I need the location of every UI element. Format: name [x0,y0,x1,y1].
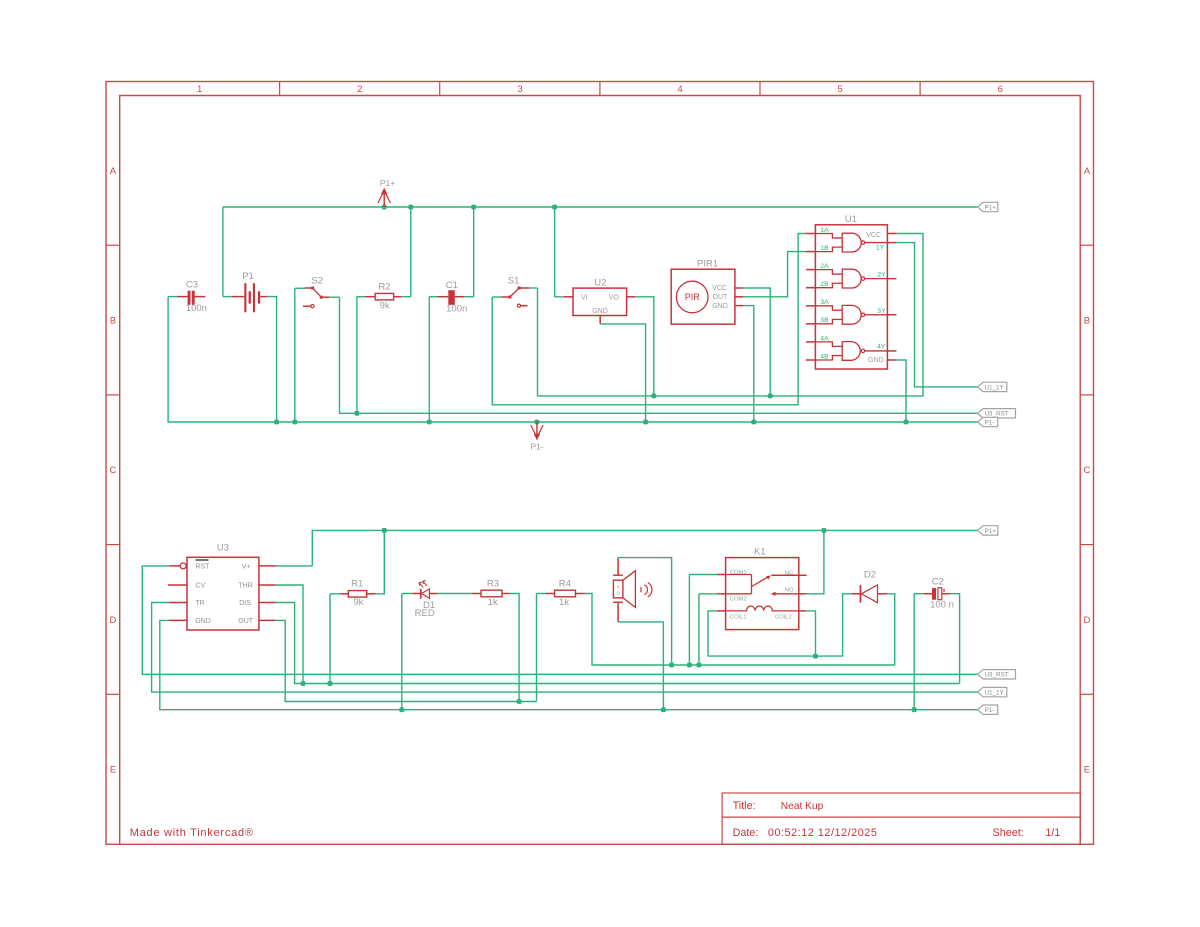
svg-text:NC: NC [785,570,793,576]
svg-text:NO: NO [785,588,794,594]
svg-text:2A: 2A [820,263,829,270]
svg-text:C3: C3 [186,280,198,291]
svg-text:R3: R3 [487,579,499,590]
svg-text:V+: V+ [242,563,251,570]
node U2 GND on P1- bus [643,420,648,425]
svg-text:S1: S1 [508,276,520,287]
svg-text:C: C [1083,465,1090,476]
wire S2 left contact wire [295,287,305,289]
wire U1 GND to P1- bus [896,360,906,422]
svg-text:1k: 1k [559,597,569,608]
svg-text:A: A [110,166,117,177]
sheet outer border frame [106,82,1094,845]
U1 right pin stubs [887,234,896,361]
svg-text:VI: VI [581,294,588,301]
wire D1 left lead wire [402,593,412,595]
wire U3 TR to U1_1Y line [152,603,978,693]
svg-text:DIS: DIS [239,600,251,607]
capacitor C2 100n [924,577,954,611]
diode D2 [852,570,888,603]
row tick marks left and right [106,245,1094,694]
wire S1 common wire [492,296,502,298]
NAND IC U1 [815,214,887,369]
svg-text:K1: K1 [754,546,766,557]
svg-text:P1-: P1- [985,419,995,426]
LED D1 RED [412,581,437,620]
node P1 right on P1- bus [274,420,279,425]
node U2 VO on VCC rail [651,394,656,399]
wire R4 right to common line [585,594,895,666]
svg-text:A: A [1084,166,1091,177]
svg-text:1Y: 1Y [876,245,885,252]
wire U3 OUT line [276,620,537,701]
net flag P1+ bottom [978,526,998,535]
net flag U3_RST bottom [978,670,1016,679]
node P1+ R2 junction [408,205,413,210]
wire K1 COM2 vertical [698,594,700,665]
wire speaker bottom to P1- line [618,622,663,710]
column numbers 1-6 [197,84,1003,95]
svg-text:4: 4 [677,84,682,95]
svg-text:P1-: P1- [530,442,543,452]
svg-text:P1-: P1- [985,707,995,714]
node COM1 on common line [687,663,692,668]
svg-text:OUT: OUT [713,294,729,301]
svg-text:U3: U3 [217,543,229,554]
wire P1+ to U2 VI [554,207,556,297]
svg-text:9k: 9k [380,300,390,311]
wire U3 DIS timing line [276,603,960,684]
wire U2 VI lead wire [555,296,564,298]
speaker LS1 [613,558,652,622]
svg-text:P1+: P1+ [985,528,997,535]
wire P1+ bus bottom [312,530,977,566]
wire S2 right to U3_RST line [340,297,978,413]
svg-text:RST: RST [195,563,210,570]
svg-text:Date:: Date: [733,827,759,839]
wire D2 right to common line [887,594,895,665]
svg-text:100n: 100n [446,304,467,315]
resistor R1 9k [340,578,376,607]
node P1- flag junction [535,420,540,425]
node S2 left on P1- bus [292,420,297,425]
wire S2 left vertical to P1- bus [294,288,296,422]
svg-text:S2: S2 [311,276,323,287]
svg-text:1: 1 [197,84,202,95]
net flag U1_1Y bottom [978,687,1007,696]
wire K1 COM1 wire [689,574,717,576]
svg-text:100n: 100n [186,303,207,314]
svg-text:P1+: P1+ [380,178,395,188]
svg-text:R4: R4 [559,579,571,590]
column tick marks top [280,82,921,96]
svg-text:THR: THR [238,583,252,590]
node P1+ flag junction [382,205,387,210]
net flag P1- top [978,417,998,426]
svg-text:2Y: 2Y [877,271,886,278]
PIR sensor PIR1 [671,258,743,324]
net flag P1+ right top [978,202,998,211]
svg-text:B: B [110,316,116,327]
node PIR VCC on VCC rail [768,394,773,399]
node COIL2 on coil line [813,654,818,659]
node P1+ C1 junction [471,205,476,210]
svg-text:COM2: COM2 [730,596,747,602]
svg-text:U3_RST: U3_RST [985,411,1009,418]
timer IC U3 [168,543,276,630]
svg-text:CV: CV [195,583,205,590]
svg-text:OUT: OUT [238,618,254,625]
wire K1 NO to P1+ bus [807,530,824,593]
wire P1- bus [168,297,978,422]
svg-text:COIL2: COIL2 [775,615,792,621]
net flag U1_1Y top [978,382,1007,391]
svg-text:3B: 3B [820,317,829,324]
switch S2 [303,276,329,308]
nand gate 3 of U1 [815,305,887,324]
battery P1 [232,271,268,312]
wire K1 COM1 vertical [688,575,690,666]
svg-text:5: 5 [838,84,843,95]
title block [722,793,1080,844]
wire R4 left vertical to OUT line [536,594,538,702]
svg-text:COM1: COM1 [730,570,747,576]
node speaker bottom on P1- line [661,707,666,712]
svg-text:D2: D2 [864,570,876,581]
wire U1 1Y to tag [896,243,977,387]
net flag U3_RST top [978,409,1016,418]
svg-text:U3_RST: U3_RST [985,672,1009,679]
svg-text:E: E [110,765,116,776]
svg-text:4Y: 4Y [877,343,886,350]
svg-text:VCC: VCC [866,232,881,239]
wire R1 left lead wire [330,593,340,595]
wire R1 right to P1+ bus [376,530,385,593]
svg-text:C2: C2 [932,577,944,588]
node R1 on timing line [328,681,333,686]
resistor R4 1k [546,579,585,608]
svg-text:U1_1Y: U1_1Y [985,690,1005,697]
svg-text:PIR1: PIR1 [697,258,718,269]
svg-text:4B: 4B [820,353,829,360]
svg-text:1A: 1A [820,227,829,234]
svg-text:GND: GND [195,618,211,625]
wire P1+ to C1 right [473,207,475,297]
svg-text:Made with Tinkercad®: Made with Tinkercad® [130,827,254,839]
capacitor C3 [177,280,207,315]
wire C3 left lead wire [168,296,177,298]
node K1 NO on P1+ bus [822,528,827,533]
resistor R3 1k [472,579,510,608]
wire K1 COIL1 to D2 left [708,594,852,656]
node R3 on OUT line [517,699,522,704]
wire U3 V+ wire [276,565,313,567]
svg-text:Sheet:: Sheet: [993,827,1024,839]
svg-text:D: D [1083,615,1090,626]
wire P1 left lead wire [223,296,232,298]
svg-text:C1: C1 [446,280,458,291]
svg-text:PIR: PIR [685,292,701,302]
svg-text:6: 6 [998,84,1003,95]
wire R2 left lead wire [357,296,366,298]
wire speaker top to common line [618,558,672,665]
svg-text:00:52:12 12/12/2025: 00:52:12 12/12/2025 [768,827,878,839]
svg-text:9k: 9k [353,597,363,608]
wire D1 to R3 wire [437,593,472,595]
node P1+ U2 junction [552,205,557,210]
svg-text:D: D [109,615,116,626]
svg-text:GND: GND [868,357,884,364]
wire S2 right contact wire [329,296,339,298]
resistor R2 9k [366,281,401,311]
svg-text:3Y: 3Y [877,308,886,315]
wire C2 right to timing line [950,594,959,684]
node C1 left on P1- bus [427,420,432,425]
power flag P1+ [378,178,395,207]
svg-text:U1_1Y: U1_1Y [985,384,1005,391]
wire R1 left vertical to timing line [329,594,331,684]
svg-text:RED: RED [415,608,435,619]
wire S1 top contact wire [529,287,538,289]
wire U3 THR down [276,585,303,684]
svg-text:4A: 4A [820,335,829,342]
svg-text:VCC: VCC [712,285,727,292]
wire U2 GND to P1- bus [600,324,645,422]
svg-text:VO: VO [609,294,620,301]
net flag P1- bottom [978,705,998,714]
svg-text:C: C [109,465,116,476]
node COM2 on common line [697,663,702,668]
regulator U2 [564,277,635,324]
wire R4 left lead wire [537,593,546,595]
svg-text:Neat Kup: Neat Kup [781,801,824,812]
wire U3 GND to P1- line [160,620,978,709]
relay K1 [717,546,807,629]
wire C1 right lead wire [464,296,474,298]
row letters A-E [109,166,1090,776]
svg-text:R1: R1 [351,578,363,589]
svg-text:1k: 1k [488,597,498,608]
wire K1 COIL2 down [806,611,815,656]
wire P1+ to P1 left [222,207,224,297]
U1 left input pin stubs [806,234,816,361]
svg-text:Title:: Title: [733,800,756,812]
node U1 GND on P1- bus [904,420,909,425]
svg-text:B: B [1084,316,1090,327]
node R2 on U3_RST line [355,411,360,416]
svg-text:2B: 2B [820,281,829,288]
svg-text:100 n: 100 n [930,599,954,610]
nand gate 4 of U1 [815,342,887,361]
wire P1+ bus horizontal [223,206,978,208]
wire PIR OUT to U1 1B [743,252,806,297]
node THR on timing line [301,681,306,686]
wire U3 RST to U3_RST line [142,566,977,674]
wire P1+ to R2 right [410,207,412,297]
nand gate 1 of U1 [815,233,887,252]
wire C2 left lead wire [914,593,924,595]
wire P1 right to P1- bus [267,297,276,422]
svg-text:2: 2 [357,84,362,95]
node PIR GND on P1- bus [751,420,756,425]
wire PIR VCC to VCC rail [743,288,770,396]
wire PIR GND to P1- bus [743,306,754,422]
power flag P1- [530,422,543,452]
wire K1 COM2 wire [699,593,717,595]
svg-text:1B: 1B [820,245,829,252]
node R1 on P1+ bus [382,528,387,533]
wire U2 VO to VCC rail [635,297,654,396]
wire S1 common to U1 1A [492,234,806,405]
node speaker top on common line [669,663,674,668]
node C2 on P1- line [912,707,917,712]
svg-text:P1: P1 [242,271,254,282]
wire D1 left vertical to P1- line [401,594,403,710]
svg-text:GND: GND [592,308,608,315]
wire R2 left vertical to U3_RST line [356,297,358,414]
svg-text:U1: U1 [845,214,857,225]
svg-text:TR: TR [195,600,204,607]
wire C1 left lead wire [429,296,438,298]
U1 pin labels [820,227,886,364]
node D1 on P1- line [399,707,404,712]
wire C1 left vertical to P1- bus [428,297,430,422]
sheet inner border frame [120,96,1080,845]
svg-text:3: 3 [517,84,522,95]
wire S1 to VCC rail to U1 VCC [538,234,924,396]
svg-text:1/1: 1/1 [1045,827,1060,839]
capacitor C1 100n [438,280,467,315]
wire C2 left vertical to P1- line [913,594,915,710]
nand gate 2 of U1 [815,269,887,288]
wire R3 right to OUT line [510,594,520,702]
svg-text:E: E [1084,765,1090,776]
svg-text:COIL1: COIL1 [730,615,747,621]
svg-text:P1+: P1+ [985,204,997,211]
svg-text:U2: U2 [594,277,606,288]
svg-text:3A: 3A [820,299,829,306]
switch S1 [502,276,529,308]
svg-text:GND: GND [712,303,728,310]
svg-text:R2: R2 [378,281,390,292]
wire R2 right lead wire [401,296,411,298]
